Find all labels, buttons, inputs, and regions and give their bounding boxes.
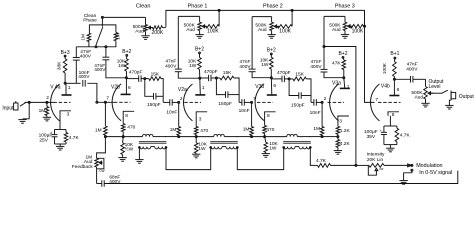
- switch contact left: [95, 46, 97, 48]
- wire clean bus: [102, 16, 145, 18]
- switch contact right: [105, 46, 107, 48]
- allpass network stage 2: capacitor 470pF, resistor 15K, capacitor 150pF, capacitor 10nF: [200, 77, 209, 79]
- junction V3a cathode node: [337, 136, 339, 138]
- svg-text:150pF: 150pF: [291, 102, 305, 108]
- triode V4a input buffer: [51, 84, 60, 121]
- svg-text:4.7K: 4.7K: [400, 132, 411, 138]
- svg-text:Modulation: Modulation: [416, 163, 442, 169]
- svg-text:15K: 15K: [223, 70, 232, 76]
- svg-text:47K: 47K: [332, 61, 341, 67]
- svg-text:Phase 2: Phase 2: [263, 3, 283, 9]
- wire input to V4a grid: [25, 101, 54, 103]
- terminal modulation signal: [411, 164, 413, 166]
- ground modulation input: [404, 170, 412, 180]
- junction 1M / feedback tap: [104, 136, 106, 138]
- svg-text:470pF: 470pF: [277, 70, 291, 76]
- cathode V2b pin 8: [123, 111, 134, 115]
- svg-text:+: +: [380, 129, 382, 133]
- triode V2b phase stage 1: [112, 84, 121, 121]
- junction phase3 pot riser / modulation tap: [323, 46, 325, 48]
- svg-text:1W: 1W: [198, 146, 206, 152]
- svg-text:35V: 35V: [367, 134, 376, 140]
- svg-text:400V: 400V: [109, 179, 121, 185]
- ground V2a cathode: [192, 153, 200, 155]
- resistor 1M V3a grid leak: [321, 102, 323, 126]
- svg-text:V 4a: V 4a: [50, 85, 61, 91]
- junction V3a plate node: [343, 77, 345, 79]
- svg-text:400V: 400V: [165, 64, 177, 70]
- junction clean bus / switch: [101, 16, 103, 18]
- ground input 1M: [43, 116, 51, 118]
- capacitor 68nF 400V feedback: [101, 180, 103, 187]
- plate V4b pin 6: [389, 95, 399, 97]
- potentiometer Phase 3 500K Aud with 100K mix resistor: [324, 15, 345, 17]
- ground clean pot: [141, 35, 149, 37]
- transformer T2 phase inductor: [214, 134, 225, 136]
- svg-text:Level: Level: [429, 84, 441, 90]
- junction mix bus / phase1 100K: [218, 9, 220, 11]
- grid V4a pin 2: [54, 101, 57, 103]
- capacitor 47nF 400V phase tap from V2b plate: [105, 47, 107, 57]
- svg-text:470: 470: [200, 128, 208, 134]
- resistor 4.7K V4b cathode: [396, 126, 398, 128]
- svg-text:1: 1: [202, 85, 205, 91]
- capacitor 47nF 400V phase1 tap from V2a plate: [177, 16, 179, 69]
- potentiometer 1M Aud Feedback: [95, 158, 99, 167]
- svg-text:½W: ½W: [125, 145, 134, 152]
- wire 1M bottom to V2b cathode junction: [105, 136, 123, 138]
- svg-text:Feedback: Feedback: [72, 164, 94, 170]
- wire V4a plate to 10nF coupling: [65, 82, 81, 84]
- svg-text:100µF: 100µF: [364, 129, 378, 135]
- svg-text:1M: 1M: [313, 126, 320, 132]
- wire output wiper to jack: [431, 92, 442, 94]
- resistor 47K V3a plate load: [342, 57, 345, 60]
- svg-text:3: 3: [67, 111, 70, 117]
- resistor 1M bleed left: [87, 33, 91, 41]
- triode V3a driver: [330, 84, 339, 121]
- resistor 10K 1W V3b plate load: [270, 54, 272, 57]
- ground T1 control winding: [138, 147, 140, 159]
- svg-text:400V: 400V: [80, 53, 92, 59]
- resistor 10K 1W V2a cathode to ground: [195, 137, 197, 143]
- cathode V3a pin 3: [338, 116, 349, 120]
- potentiometer clean 500K Aud: [145, 17, 147, 24]
- svg-text:6: 6: [397, 87, 400, 93]
- ground V4b cathode: [389, 145, 391, 149]
- svg-text:100K: 100K: [382, 62, 388, 74]
- svg-text:30K: 30K: [56, 61, 62, 70]
- resistor 470 V3b cathode: [263, 126, 267, 134]
- svg-text:25V: 25V: [39, 137, 48, 143]
- svg-text:V2a: V2a: [178, 87, 187, 93]
- svg-text:1M: 1M: [170, 127, 177, 133]
- junction V3b cathode node: [264, 136, 266, 138]
- junction modulation / phase3 tap: [355, 164, 357, 166]
- plate V3b pin 6: [267, 94, 277, 96]
- svg-text:V4b: V4b: [381, 84, 390, 90]
- transformer T3 phase inductor: [287, 134, 298, 136]
- junction V2b cathode node: [122, 136, 124, 138]
- svg-text:Input: Input: [2, 106, 14, 112]
- junction V2b grid: [96, 101, 98, 103]
- switch lever Clean/Phase: [96, 27, 103, 45]
- svg-text:4.2K: 4.2K: [340, 141, 351, 147]
- svg-text:470pF: 470pF: [204, 69, 218, 75]
- resistor 10K 1W V3b cathode to ground: [265, 137, 266, 143]
- ground V2b cathode: [118, 157, 126, 159]
- wire switch bleed top rail: [89, 25, 116, 33]
- svg-text:200K: 200K: [152, 30, 164, 36]
- ground input jack sleeve: [23, 102, 30, 118]
- svg-text:1W: 1W: [261, 62, 269, 68]
- junction mix bus drop / phase3 100K: [364, 25, 366, 27]
- allpass network stage 1: capacitor 470pF, resistor 15K, capacitor 150pF, capacitor 10nF: [126, 78, 138, 80]
- plate V4a pin 1: [62, 94, 72, 96]
- svg-text:1W: 1W: [118, 63, 126, 69]
- svg-text:Aud: Aud: [332, 27, 341, 33]
- wire switch common drop: [101, 17, 103, 26]
- ground output pot: [421, 102, 429, 104]
- svg-text:8: 8: [267, 113, 270, 119]
- svg-text:Aud: Aud: [186, 27, 195, 33]
- output jack: [450, 91, 452, 101]
- svg-text:100K: 100K: [279, 28, 291, 34]
- svg-text:In 0-5V signal: In 0-5V signal: [419, 170, 452, 176]
- grid V2a pin 2: [184, 101, 187, 103]
- resistor 10K 1W V2b plate load: [126, 55, 128, 58]
- resistor 4.2K V3a cathode lower: [337, 137, 339, 140]
- svg-text:Aud: Aud: [135, 29, 144, 35]
- grid V2b pin 7: [114, 101, 117, 103]
- capacitor 47nF 400V output coupling: [410, 76, 412, 83]
- svg-text:400V: 400V: [406, 67, 418, 73]
- wire feedback line to output: [104, 171, 458, 184]
- svg-text:1M: 1M: [95, 127, 102, 133]
- junction V4a grid / 1M: [46, 101, 48, 103]
- svg-text:6: 6: [273, 83, 276, 89]
- svg-text:1M: 1M: [81, 34, 87, 41]
- svg-text:8: 8: [125, 113, 128, 119]
- svg-text:CW: CW: [99, 169, 104, 173]
- svg-text:15K: 15K: [295, 71, 304, 77]
- svg-text:cw: cw: [379, 167, 384, 171]
- capacitor 47nF 400V clean tap from V4a plate: [75, 47, 77, 58]
- junction V2a cathode node: [195, 136, 197, 138]
- svg-text:V2b: V2b: [111, 85, 120, 91]
- ground output jack: [449, 100, 451, 105]
- resistor 200K clean mix: [151, 27, 153, 29]
- resistor 1.2K V3a cathode upper: [336, 126, 340, 134]
- resistor 30K V4a plate load: [64, 56, 66, 59]
- svg-text:1.2K: 1.2K: [340, 128, 351, 134]
- svg-text:1M: 1M: [243, 126, 250, 132]
- svg-text:1M: 1M: [39, 108, 46, 114]
- svg-text:150pF: 150pF: [218, 101, 232, 107]
- svg-text:Intensity: Intensity: [367, 152, 385, 158]
- svg-text:2: 2: [324, 96, 327, 102]
- svg-text:4.7K: 4.7K: [316, 158, 327, 164]
- svg-text:100K: 100K: [352, 28, 364, 34]
- svg-text:10nF: 10nF: [166, 109, 177, 115]
- wire V4b plate to output cap: [394, 78, 410, 80]
- wire T2 to T3 control chain: [237, 147, 283, 169]
- triode V4b output mixer: [370, 84, 379, 121]
- jack tip contact output: [441, 90, 448, 93]
- plate V3a pin 1: [340, 87, 350, 89]
- svg-text:1: 1: [347, 84, 350, 90]
- junction V3b plate node: [270, 77, 272, 79]
- wire feedback pot to 68nF: [96, 167, 98, 184]
- svg-text:150pF: 150pF: [147, 102, 161, 108]
- resistor 4.7K modulation: [318, 164, 331, 168]
- resistor 4.7K V4a cathode: [65, 130, 67, 133]
- grid V4b pin 7: [378, 101, 381, 103]
- potentiometer Intensity 20K Lin: [369, 164, 384, 168]
- junction mix bus / phase2 100K: [291, 9, 293, 11]
- svg-text:Aud: Aud: [258, 27, 267, 33]
- junction V2a plate node: [199, 77, 201, 79]
- resistor 10K 1W V2a plate load: [199, 53, 201, 58]
- resistor 470 V2a cathode: [194, 127, 198, 135]
- resistor 1M V3b grid leak: [251, 102, 253, 126]
- junction V4a plate node: [64, 82, 66, 84]
- cathode V3b pin 8: [265, 112, 276, 116]
- capacitor 100uF 35V V4b cathode bypass: [384, 125, 397, 127]
- allpass network stage 3: capacitor 470pF, resistor 15K, capacitor 150pF, capacitor 10nF: [271, 78, 282, 80]
- resistor 100K V4b plate load: [393, 58, 396, 62]
- svg-text:7: 7: [375, 97, 378, 103]
- junction V2b plate node: [125, 77, 127, 79]
- cathode V4b pin 8: [388, 112, 399, 116]
- cathode V4a pin 3: [60, 111, 71, 115]
- svg-text:15K: 15K: [151, 72, 160, 78]
- svg-text:Output: Output: [459, 94, 474, 100]
- wire mix bus to V4b grid: [166, 10, 375, 102]
- cathode V2a pin 3: [196, 112, 207, 116]
- junction V2b grid / 1M leak: [104, 101, 106, 103]
- svg-text:470: 470: [127, 125, 135, 131]
- potentiometer Phase 2 500K Aud with 100K mix resistor: [252, 16, 272, 18]
- svg-text:2: 2: [180, 96, 183, 102]
- svg-text:400V: 400V: [94, 67, 106, 73]
- wire switch throw node: [76, 46, 106, 48]
- svg-text:Phase 1: Phase 1: [188, 3, 208, 9]
- triode V2a phase stage 2: [183, 84, 192, 121]
- svg-text:B+1: B+1: [390, 51, 399, 57]
- arrowhead modulation input: [408, 164, 412, 167]
- wire T3 to modulation line: [310, 147, 312, 165]
- svg-text:Phase 3: Phase 3: [335, 3, 355, 9]
- svg-text:3: 3: [199, 117, 202, 123]
- junction V4b plate node: [393, 78, 395, 80]
- svg-text:1W: 1W: [269, 145, 277, 151]
- wire phase3 pot to modulation line: [324, 47, 356, 166]
- svg-text:7: 7: [106, 96, 109, 102]
- svg-text:470pF: 470pF: [129, 70, 143, 76]
- resistor 1M input grid leak: [46, 102, 48, 106]
- plate V2b pin 6: [121, 93, 131, 95]
- svg-text:8: 8: [392, 112, 395, 118]
- terminal modulation return: [411, 169, 413, 171]
- svg-text:10nF: 10nF: [310, 110, 321, 116]
- grid V3a pin 2: [328, 101, 331, 103]
- svg-text:1M: 1M: [116, 33, 122, 40]
- plate V2a pin 1: [195, 94, 205, 96]
- svg-text:20K Lin: 20K Lin: [367, 157, 384, 163]
- svg-text:400V: 400V: [78, 74, 90, 80]
- svg-text:Phase: Phase: [83, 18, 97, 24]
- capacitor 47nF 400V phase3 tap from V3a plate: [323, 16, 325, 69]
- svg-text:1: 1: [68, 85, 71, 91]
- svg-text:3: 3: [339, 119, 342, 125]
- resistor 10K half-W V2b cathode to ground: [122, 137, 125, 143]
- svg-text:10nF: 10nF: [239, 108, 250, 114]
- wire feedback wiper loop: [97, 158, 104, 169]
- svg-text:7: 7: [253, 96, 256, 102]
- jack tip contact: [20, 102, 26, 106]
- potentiometer Phase 1 500K Aud with 100K mix resistor: [178, 15, 199, 17]
- resistor 1M V2a grid leak: [178, 102, 180, 126]
- wire V3a cathode bias: [322, 136, 338, 138]
- svg-text:4.7K: 4.7K: [69, 135, 80, 141]
- resistor 1M V2b grid leak: [104, 102, 106, 126]
- transformer T1 phase inductor: [143, 134, 154, 136]
- capacitor 10nF 400V clean coupling: [82, 80, 84, 87]
- svg-text:V3a: V3a: [332, 80, 341, 86]
- ground V4a cathode: [59, 144, 61, 146]
- ground V3a cathode: [334, 150, 342, 152]
- svg-text:V3b: V3b: [255, 84, 264, 90]
- svg-text:47nF: 47nF: [165, 58, 176, 64]
- resistor 470 V2b cathode: [121, 124, 125, 132]
- svg-text:1W: 1W: [189, 63, 197, 69]
- svg-text:6: 6: [128, 85, 131, 91]
- capacitor 47nF 400V phase2 tap from V3b plate: [251, 17, 253, 70]
- wire feedback tap down: [97, 137, 106, 159]
- triode V3b phase stage 3: [255, 84, 264, 121]
- svg-text:100K: 100K: [207, 28, 219, 34]
- resistor 1M bleed right: [114, 32, 118, 40]
- svg-text:470: 470: [266, 127, 274, 133]
- svg-text:Clean: Clean: [136, 3, 151, 9]
- svg-text:2: 2: [46, 95, 49, 101]
- ground V3b cathode: [262, 153, 270, 155]
- svg-text:400V: 400V: [310, 64, 322, 70]
- svg-text:Aud: Aud: [414, 95, 423, 101]
- grid V3b pin 7: [257, 101, 260, 103]
- junction input sleeve: [28, 101, 30, 103]
- svg-text:400V: 400V: [239, 64, 251, 70]
- capacitor 100uF 25V V4a cathode bypass: [59, 122, 61, 130]
